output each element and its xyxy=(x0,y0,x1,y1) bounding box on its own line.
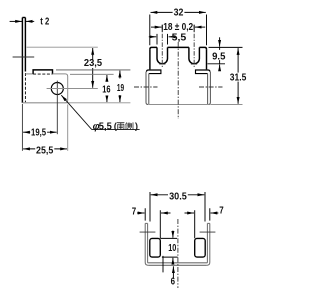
body top edge right of tab + right edge + bottom xyxy=(53,74,68,103)
dimension 30,5 xyxy=(151,194,205,196)
part outline xyxy=(145,223,210,265)
dimension 9,5 xyxy=(219,37,221,70)
dimension 19 xyxy=(119,71,121,103)
dimension 18 ± 0,2 xyxy=(151,26,205,28)
kanji 側 (simplified strokes) xyxy=(126,122,134,129)
main centerline xyxy=(177,42,179,119)
svg-text:9.5: 9.5 xyxy=(212,52,226,63)
hole edge extensions xyxy=(160,210,194,238)
dimension 5,5 extensions xyxy=(157,34,168,45)
dimension t 2 xyxy=(10,20,35,22)
svg-text:5,5: 5,5 xyxy=(99,121,112,132)
body top edge left of tab xyxy=(25,73,33,75)
dimension 32 extensions xyxy=(150,15,207,46)
plate centerline cross xyxy=(13,56,35,58)
dimension 6 xyxy=(172,266,174,278)
dimension 16 top extension xyxy=(70,73,114,75)
part outline xyxy=(146,47,210,104)
svg-text:19,5: 19,5 xyxy=(31,128,46,139)
hidden line under tab xyxy=(33,73,52,75)
bottom edge xyxy=(148,104,208,106)
left wall outer xyxy=(146,72,148,105)
dimension 7 right xyxy=(185,212,219,214)
dimension 23,5 xyxy=(92,48,94,88)
svg-text:7: 7 xyxy=(132,206,137,217)
left wall inner xyxy=(147,223,149,262)
body bottom edge xyxy=(22,102,65,104)
svg-text:5,5: 5,5 xyxy=(172,32,187,43)
hole circle xyxy=(51,83,63,95)
svg-text:30.5: 30.5 xyxy=(169,192,187,203)
svg-text:32: 32 xyxy=(174,8,184,19)
dimension 16 xyxy=(106,75,108,102)
plate bottom inner xyxy=(148,262,208,264)
slot crosshair ticks xyxy=(159,63,197,65)
kanji 両 (simplified strokes) xyxy=(117,123,124,130)
tab on body top xyxy=(33,70,52,74)
svg-text:16: 16 xyxy=(102,85,111,96)
right wall inner xyxy=(207,74,209,105)
plate bottom outer xyxy=(148,264,207,266)
dimension 25,5 xyxy=(23,148,67,150)
svg-text:6: 6 xyxy=(171,276,176,287)
svg-text:31.5: 31.5 xyxy=(230,73,247,84)
dimension 7 left xyxy=(137,212,171,214)
extension lines below body xyxy=(21,104,23,151)
hole horizontal centerline xyxy=(47,88,98,90)
left wall inner xyxy=(148,74,150,105)
right tab xyxy=(196,70,211,74)
svg-text:18 ± 0,2: 18 ± 0,2 xyxy=(163,22,193,33)
dimension 5,5 xyxy=(149,36,172,38)
hole horizontal centerlines xyxy=(134,86,223,88)
right hole xyxy=(195,238,206,257)
9,5 bottom extension xyxy=(208,63,226,65)
dimension 32 xyxy=(151,11,206,13)
prong outer edges xyxy=(149,49,151,69)
7 extension lines xyxy=(145,208,210,220)
svg-text:25,5: 25,5 xyxy=(36,145,54,156)
dimension 10 xyxy=(172,231,174,265)
18 dim extension solid segments xyxy=(162,25,194,32)
left wall outer xyxy=(145,223,148,265)
svg-text:19: 19 xyxy=(117,83,124,94)
plate right edge hidden dashed xyxy=(24,73,26,102)
dimension 30,5 extensions xyxy=(150,192,205,222)
main centerline xyxy=(177,219,179,288)
dimension 6 extension xyxy=(162,256,164,273)
left tab xyxy=(146,70,161,74)
svg-text:): ) xyxy=(135,121,138,132)
right wall cap xyxy=(207,222,209,224)
hole crosshairs xyxy=(140,231,216,233)
bottom reference extension for 16 and 19 xyxy=(65,102,130,104)
hole vertical centerline xyxy=(56,81,58,135)
svg-text:23,5: 23,5 xyxy=(84,58,103,69)
plate right edge solid xyxy=(24,18,26,72)
top extension line to right xyxy=(209,46,243,48)
svg-text:10: 10 xyxy=(168,243,176,254)
right wall outer xyxy=(208,72,210,105)
svg-text:t 2: t 2 xyxy=(40,16,49,27)
right wall outer xyxy=(207,223,210,265)
bottom extension line to right xyxy=(211,104,243,106)
leader line to hole xyxy=(61,95,139,129)
dimension 10 extensions xyxy=(160,238,177,257)
plate top cap xyxy=(22,17,25,19)
top edge with slots xyxy=(150,47,157,49)
slot centerlines xyxy=(162,25,194,68)
dimension 19 top extension xyxy=(56,69,130,71)
dimension 31,5 xyxy=(237,48,239,104)
plate left edge xyxy=(21,18,23,103)
dimension 19,5 xyxy=(23,131,57,133)
right wall inner xyxy=(206,223,208,262)
dimension 23,5 top extension xyxy=(27,46,98,48)
svg-text:7: 7 xyxy=(219,206,224,217)
left wall cap xyxy=(145,222,147,224)
left hole xyxy=(150,238,161,257)
